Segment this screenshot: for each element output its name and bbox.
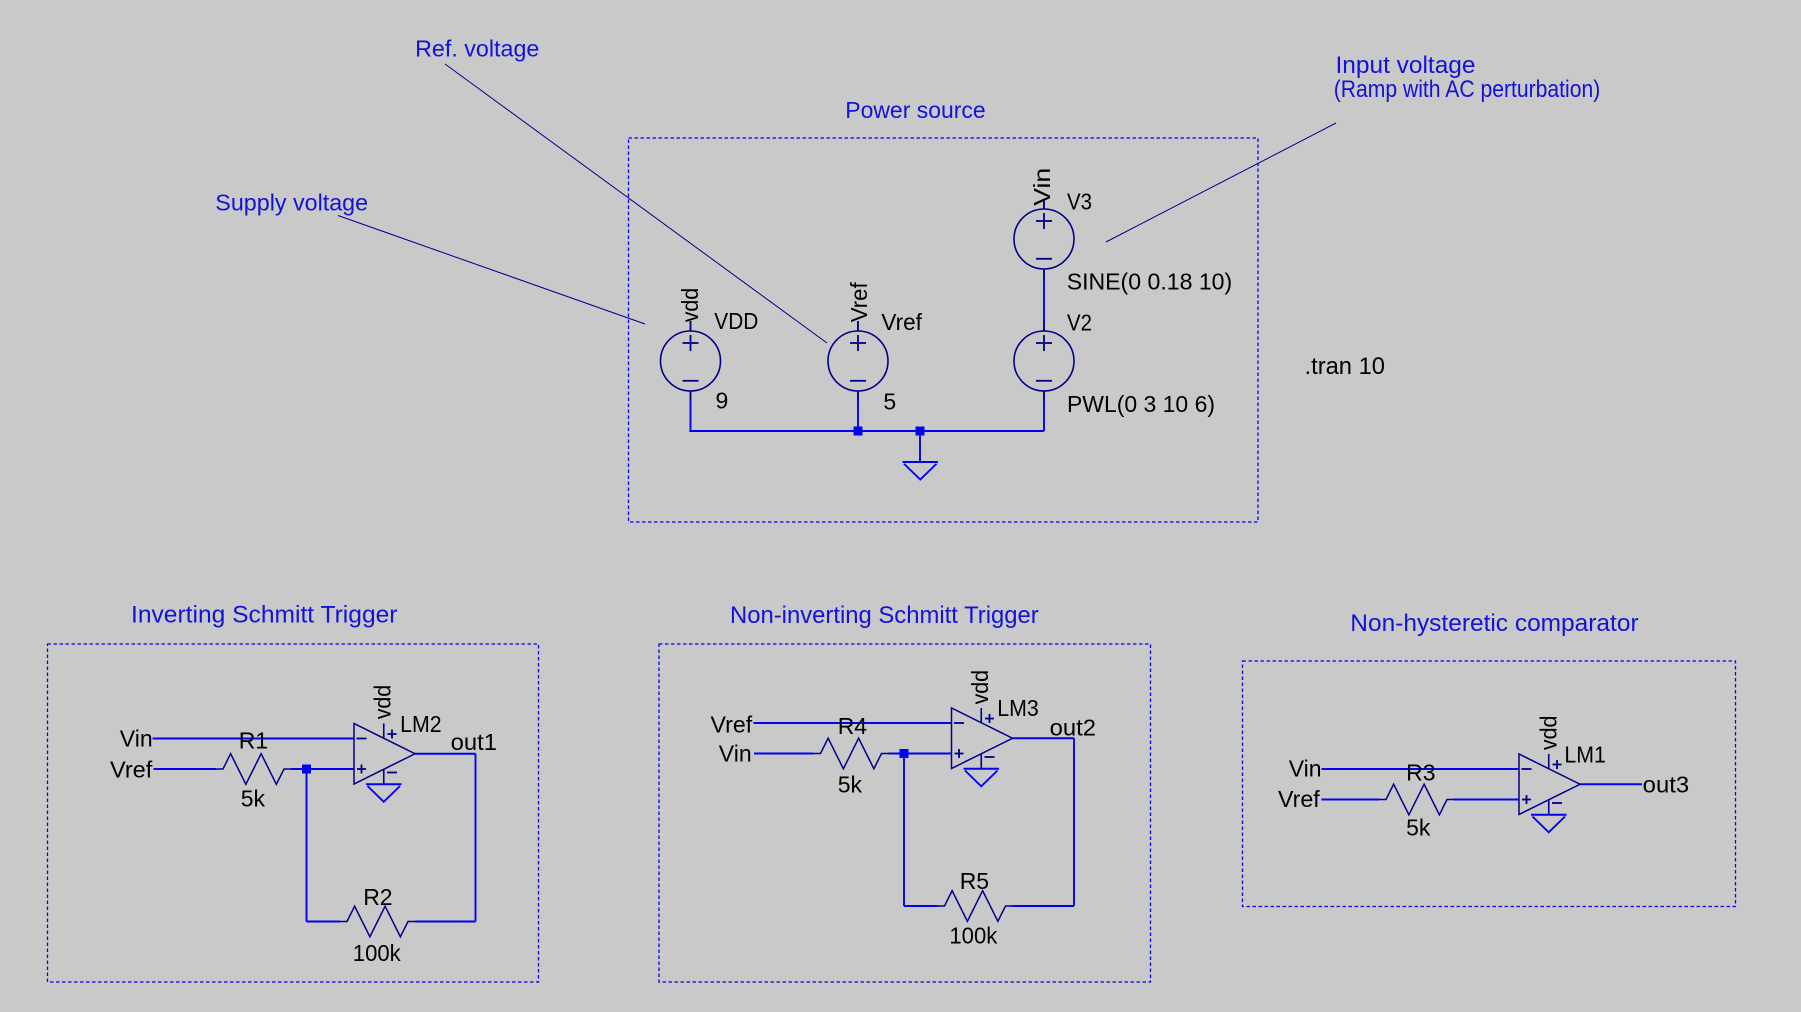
svg-text:PWL(0 3 10 6): PWL(0 3 10 6) bbox=[1067, 391, 1215, 417]
svg-text:out3: out3 bbox=[1643, 772, 1689, 798]
svg-text:Inverting Schmitt Trigger: Inverting Schmitt Trigger bbox=[131, 602, 398, 629]
svg-text:9: 9 bbox=[716, 388, 729, 414]
svg-text:Input voltage: Input voltage bbox=[1336, 52, 1476, 79]
svg-text:R4: R4 bbox=[838, 713, 868, 739]
svg-text:5k: 5k bbox=[1406, 815, 1431, 841]
svg-text:R3: R3 bbox=[1406, 759, 1435, 785]
svg-text:Vref: Vref bbox=[881, 309, 922, 335]
svg-text:Vin: Vin bbox=[1029, 168, 1055, 206]
svg-text:Vin: Vin bbox=[120, 726, 153, 752]
svg-text:LM1: LM1 bbox=[1564, 742, 1606, 768]
svg-text:Vref: Vref bbox=[846, 282, 872, 323]
svg-text:vdd: vdd bbox=[370, 685, 396, 720]
svg-text:V3: V3 bbox=[1067, 188, 1092, 214]
svg-text:5k: 5k bbox=[838, 771, 863, 797]
svg-text:.tran 10: .tran 10 bbox=[1305, 353, 1386, 380]
svg-text:5: 5 bbox=[883, 389, 896, 415]
svg-text:V2: V2 bbox=[1067, 309, 1092, 335]
svg-text:LM2: LM2 bbox=[400, 711, 442, 737]
svg-text:out2: out2 bbox=[1050, 715, 1096, 741]
svg-text:R2: R2 bbox=[363, 884, 392, 910]
svg-text:Vin: Vin bbox=[1289, 756, 1322, 782]
svg-text:vdd: vdd bbox=[677, 288, 703, 323]
svg-text:out1: out1 bbox=[451, 729, 497, 755]
svg-text:Vin: Vin bbox=[719, 741, 752, 767]
svg-text:100k: 100k bbox=[353, 940, 401, 966]
svg-text:vdd: vdd bbox=[967, 670, 993, 705]
svg-text:Ref. voltage: Ref. voltage bbox=[415, 36, 539, 62]
svg-text:(Ramp with AC perturbation): (Ramp with AC perturbation) bbox=[1334, 76, 1601, 103]
svg-text:Non-hysteretic comparator: Non-hysteretic comparator bbox=[1350, 610, 1638, 637]
svg-text:Vref: Vref bbox=[1278, 786, 1320, 812]
svg-text:Power source: Power source bbox=[845, 97, 985, 123]
svg-text:VDD: VDD bbox=[714, 308, 758, 334]
svg-text:vdd: vdd bbox=[1536, 716, 1562, 751]
svg-text:5k: 5k bbox=[241, 786, 266, 812]
svg-text:Non-inverting Schmitt Trigger: Non-inverting Schmitt Trigger bbox=[730, 602, 1039, 629]
svg-text:Vref: Vref bbox=[711, 712, 753, 738]
svg-text:100k: 100k bbox=[949, 923, 997, 949]
svg-text:Supply voltage: Supply voltage bbox=[215, 190, 368, 216]
svg-text:LM3: LM3 bbox=[997, 695, 1039, 721]
svg-text:R1: R1 bbox=[239, 728, 268, 754]
svg-text:Vref: Vref bbox=[110, 757, 153, 783]
svg-text:SINE(0 0.18 10): SINE(0 0.18 10) bbox=[1067, 268, 1233, 294]
svg-text:R5: R5 bbox=[960, 868, 989, 894]
